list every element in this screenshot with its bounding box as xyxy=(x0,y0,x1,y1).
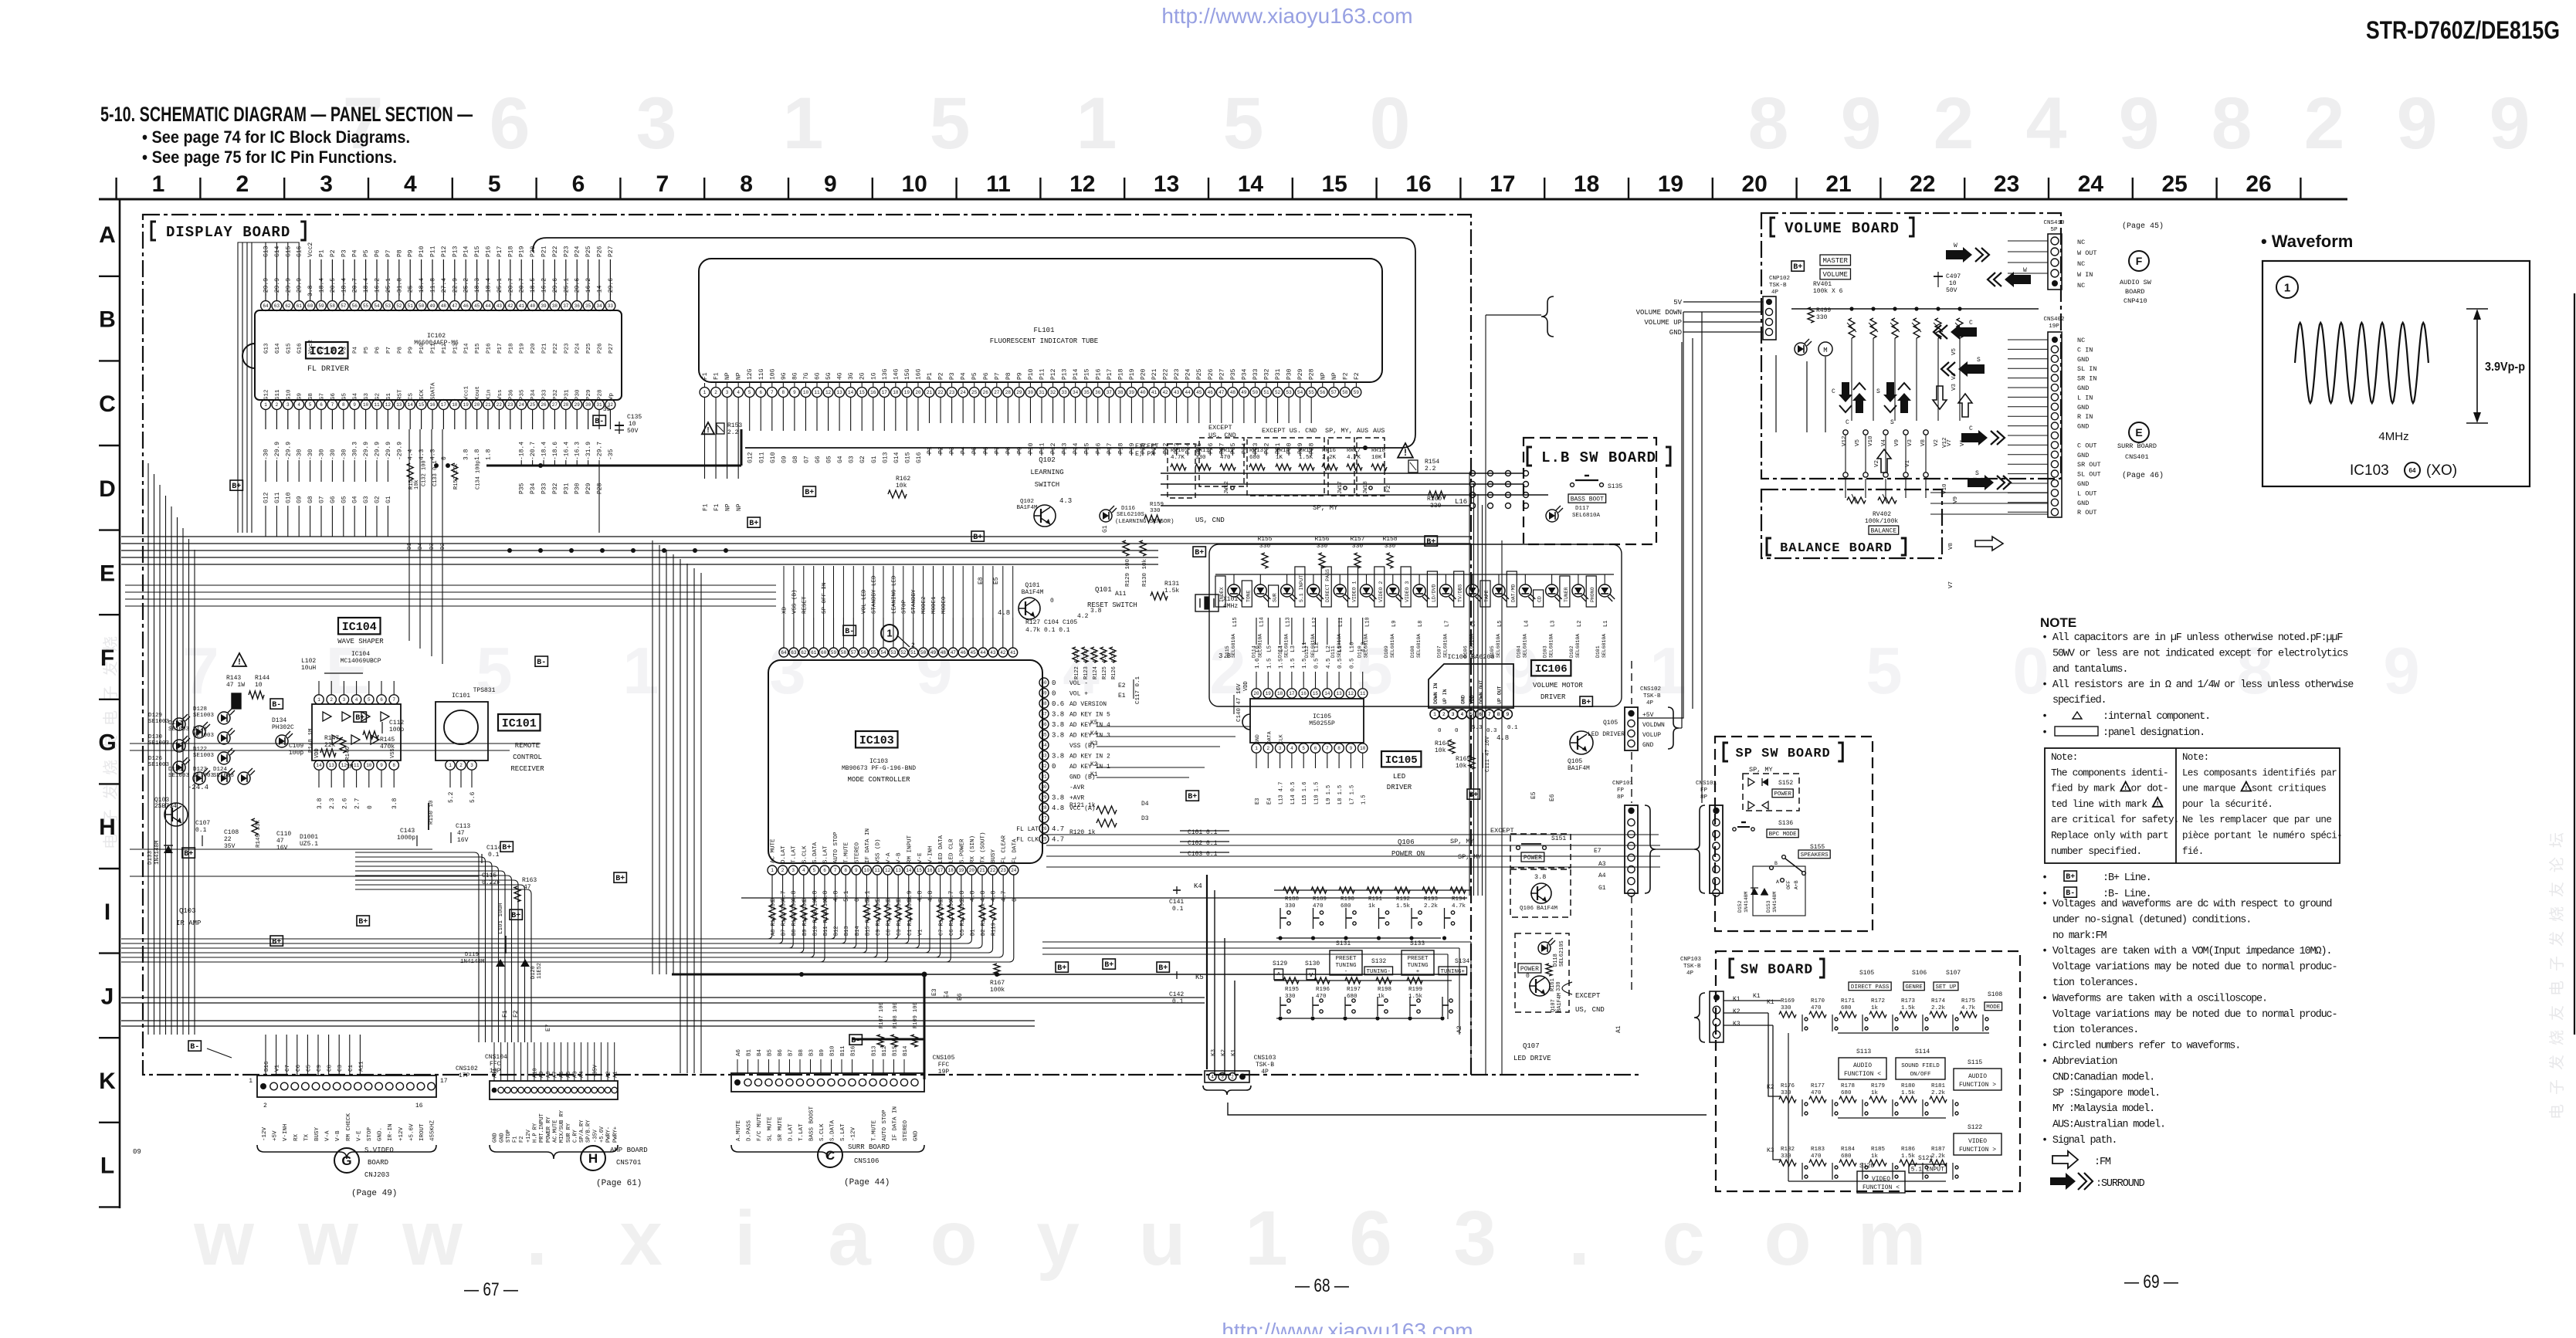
svg-text:16: 16 xyxy=(415,1103,423,1109)
svg-text:P1: P1 xyxy=(927,446,934,454)
svg-text:S: S xyxy=(1890,419,1894,426)
svg-text:P33: P33 xyxy=(1252,368,1259,380)
svg-text:P3: P3 xyxy=(341,346,347,354)
svg-text:F2: F2 xyxy=(1354,372,1361,380)
svg-text:D.LAT: D.LAT xyxy=(788,1123,795,1141)
svg-text:• Abbreviation: • Abbreviation xyxy=(2042,1056,2117,1068)
svg-text:24: 24 xyxy=(961,390,967,395)
svg-text:40: 40 xyxy=(1041,680,1047,686)
transistor Q106 xyxy=(1531,883,1551,903)
svg-text:R192: R192 xyxy=(1396,896,1410,903)
svg-text:-18.4: -18.4 xyxy=(486,278,493,296)
svg-text:VIDEO 1: VIDEO 1 xyxy=(1352,581,1357,602)
svg-text:SP SW BOARD: SP SW BOARD xyxy=(1736,747,1831,761)
svg-text:52: 52 xyxy=(900,650,907,655)
svg-text:R130 10k: R130 10k xyxy=(1142,558,1148,587)
svg-text:47: 47 xyxy=(452,303,458,309)
svg-text:12G: 12G xyxy=(747,368,754,380)
svg-text:SEL6810A: SEL6810A xyxy=(1390,634,1395,658)
svg-text:16: 16 xyxy=(927,868,933,873)
svg-text:61: 61 xyxy=(811,650,817,655)
svg-text:S.LAT: S.LAT xyxy=(840,1123,846,1141)
svg-text:D4: D4 xyxy=(1141,801,1149,808)
svg-text:2.2: 2.2 xyxy=(727,429,739,436)
svg-text:4.5: 4.5 xyxy=(1326,658,1332,669)
svg-text:F2: F2 xyxy=(513,1010,520,1018)
svg-text:B9 R104 100: B9 R104 100 xyxy=(802,900,808,936)
svg-text:10: 10 xyxy=(1949,280,1957,287)
svg-text:B10 R105 100: B10 R105 100 xyxy=(812,897,819,936)
svg-text:-18.4: -18.4 xyxy=(341,278,347,296)
svg-text:5V: 5V xyxy=(1673,299,1682,307)
svg-text:D109: D109 xyxy=(1384,645,1389,658)
svg-text:IC103: IC103 xyxy=(869,758,888,765)
svg-text:43: 43 xyxy=(497,303,503,309)
svg-text:4.2: 4.2 xyxy=(1077,613,1089,620)
wire swboard k lines xyxy=(1724,1000,1781,1001)
svg-text:DAT/MD: DAT/MD xyxy=(1510,584,1516,602)
svg-text:G2: G2 xyxy=(375,496,381,503)
svg-text:A3: A3 xyxy=(572,1072,578,1078)
B+ box w8 xyxy=(747,517,760,527)
svg-text:55: 55 xyxy=(363,303,369,309)
svg-text:CNS106: CNS106 xyxy=(854,1157,879,1165)
svg-text:VSS (D): VSS (D) xyxy=(876,838,882,863)
svg-text:GND: GND xyxy=(2077,480,2089,488)
svg-text:RX: RX xyxy=(293,1133,300,1141)
svg-text:1k: 1k xyxy=(1871,1005,1879,1011)
svg-text:5.1: 5.1 xyxy=(843,890,850,902)
svg-text:B+: B+ xyxy=(1195,549,1204,557)
svg-text:WAVE SHAPER: WAVE SHAPER xyxy=(337,638,384,645)
svg-text:1: 1 xyxy=(783,83,824,164)
svg-text:100k X 6: 100k X 6 xyxy=(1813,288,1843,295)
svg-text:D108: D108 xyxy=(1410,645,1415,658)
svg-text:11G: 11G xyxy=(758,368,765,380)
svg-text:P17: P17 xyxy=(1107,368,1113,380)
svg-text:G6: G6 xyxy=(815,456,822,463)
svg-text:64: 64 xyxy=(781,650,787,655)
svg-text:7: 7 xyxy=(331,402,334,408)
svg-text:T.MUTE: T.MUTE xyxy=(872,1120,878,1141)
svg-text:470: 470 xyxy=(1220,455,1231,461)
svg-text:D104: D104 xyxy=(1516,645,1521,658)
svg-text:15G: 15G xyxy=(904,368,911,380)
svg-text:CNS101: CNS101 xyxy=(1696,781,1717,787)
svg-text:12: 12 xyxy=(1069,171,1095,197)
waveform sine xyxy=(2295,323,2429,403)
svg-text:• See page 75 for IC Pin Funct: • See page 75 for IC Pin Functions. xyxy=(142,147,397,167)
svg-text:8P: 8P xyxy=(1617,794,1625,801)
svg-text:63: 63 xyxy=(791,650,797,655)
svg-text:1.5: 1.5 xyxy=(1266,658,1273,669)
svg-text:GND: GND xyxy=(2077,384,2089,392)
svg-text:2: 2 xyxy=(781,868,785,873)
svg-text:SW BOARD: SW BOARD xyxy=(1740,962,1813,977)
svg-text:STR-D760Z/DE815G: STR-D760Z/DE815G xyxy=(2366,16,2560,44)
svg-text:18: 18 xyxy=(452,402,458,408)
svg-text:SEL6810A: SEL6810A xyxy=(1602,634,1607,658)
svg-text:B-: B- xyxy=(851,1037,860,1045)
svg-text:+AVR: +AVR xyxy=(1069,795,1084,802)
svg-text:23: 23 xyxy=(1001,868,1007,873)
svg-text:SEL6810A: SEL6810A xyxy=(1496,634,1501,658)
svg-text:1: 1 xyxy=(622,635,659,708)
svg-text:16G: 16G xyxy=(915,368,922,380)
svg-text:E: E xyxy=(2135,426,2142,439)
arrow L out hollow xyxy=(1975,537,2003,550)
IC101 label box xyxy=(498,714,541,730)
B+ box w2 xyxy=(354,712,366,722)
svg-text:+5.6V: +5.6V xyxy=(408,1123,415,1141)
svg-text:-12V: -12V xyxy=(262,1126,268,1141)
IC102 label box xyxy=(306,342,348,358)
svg-text:R194: R194 xyxy=(1452,896,1466,903)
svg-text:19P: 19P xyxy=(938,1069,950,1075)
svg-text:G9: G9 xyxy=(781,456,788,463)
svg-text:RR15: RR15 xyxy=(1299,448,1313,454)
svg-text:L12: L12 xyxy=(1312,617,1318,627)
svg-text:B+: B+ xyxy=(502,844,511,852)
lb sw board label xyxy=(1527,447,1532,466)
transistor Q107 xyxy=(1530,976,1550,996)
svg-text:R IN: R IN xyxy=(2077,413,2093,421)
svg-text:MASTER: MASTER xyxy=(1823,257,1849,265)
svg-text:-27.4: -27.4 xyxy=(441,278,448,296)
svg-text:1.8: 1.8 xyxy=(474,449,481,460)
svg-text:G1: G1 xyxy=(386,392,392,400)
svg-text:TUNER: TUNER xyxy=(1564,587,1569,602)
svg-text:4: 4 xyxy=(355,697,358,703)
svg-text:V-A: V-A xyxy=(886,852,892,863)
svg-text:o: o xyxy=(930,1195,977,1282)
svg-text:Voltage variations may be note: Voltage variations may be noted due to n… xyxy=(2052,962,2337,974)
svg-text:• All capacitors are in µF unl: • All capacitors are in µF unless otherw… xyxy=(2042,632,2343,644)
ruler top xyxy=(99,198,2347,201)
svg-text:• Signal path.: • Signal path. xyxy=(2042,1135,2117,1147)
wire IC103 bottom to left bus xyxy=(771,875,773,905)
B+ box 1 xyxy=(1056,962,1068,972)
svg-text:TPS831: TPS831 xyxy=(473,687,496,694)
svg-text:S113: S113 xyxy=(1856,1048,1871,1055)
svg-text:CNS102: CNS102 xyxy=(456,1065,478,1072)
svg-text:-29.9: -29.9 xyxy=(274,278,281,296)
svg-text:P17: P17 xyxy=(497,343,503,354)
svg-text:S120: S120 xyxy=(1859,1163,1874,1170)
svg-text:S: S xyxy=(1975,470,1979,477)
svg-text:1: 1 xyxy=(2284,281,2290,294)
wire cns402 links xyxy=(2008,339,2048,340)
svg-text:US, CND: US, CND xyxy=(1195,517,1225,524)
svg-text:2: 2 xyxy=(714,390,717,395)
svg-text:10: 10 xyxy=(803,390,809,395)
svg-text:55: 55 xyxy=(1309,390,1315,395)
svg-text:-25.1: -25.1 xyxy=(497,278,503,296)
svg-text:IC102: IC102 xyxy=(310,345,344,358)
svg-text:1N4148M: 1N4148M xyxy=(1772,892,1778,913)
wire thick bus xyxy=(672,974,924,976)
svg-text:BUSY: BUSY xyxy=(314,1126,320,1141)
POWER box q107 xyxy=(1518,964,1541,973)
svg-text:1.5k: 1.5k xyxy=(1901,1005,1916,1011)
svg-text:BOARD: BOARD xyxy=(2125,288,2145,296)
svg-text:Vcc2: Vcc2 xyxy=(308,340,314,354)
svg-text:F1: F1 xyxy=(703,503,710,511)
svg-text:SP, MY: SP, MY xyxy=(1450,838,1474,845)
svg-text:54: 54 xyxy=(880,650,886,655)
svg-text:F: F xyxy=(2136,255,2143,267)
svg-text:D124: D124 xyxy=(213,767,228,773)
svg-text:20: 20 xyxy=(969,868,975,873)
svg-text:680: 680 xyxy=(1249,455,1260,461)
resistor row R195-R199 xyxy=(1274,980,1452,981)
svg-text:AUTO STOP: AUTO STOP xyxy=(833,832,839,863)
svg-text:P6: P6 xyxy=(375,346,381,354)
wire thick ic102 bus xyxy=(486,465,741,467)
svg-text:PRESET: PRESET xyxy=(1407,956,1429,962)
svg-text:9: 9 xyxy=(1350,746,1353,751)
svg-text:A+B: A+B xyxy=(1794,880,1799,889)
svg-text:E6: E6 xyxy=(957,993,964,1001)
svg-text:6: 6 xyxy=(1349,1195,1392,1282)
junction dots main xyxy=(507,548,512,553)
IC103 body xyxy=(768,660,1042,863)
svg-text:680: 680 xyxy=(1347,994,1357,1000)
transistor Q101 xyxy=(1019,598,1040,619)
svg-text:100k: 100k xyxy=(990,987,1005,994)
wire bundle cns701 xyxy=(355,852,479,1042)
LED board wire loop xyxy=(1209,544,1622,706)
wire bus left G rows xyxy=(130,743,541,744)
svg-text:4.7k 0.1 0.1: 4.7k 0.1 0.1 xyxy=(1025,627,1070,634)
svg-text:D.PASS: D.PASS xyxy=(747,1120,753,1141)
FL101 pins 1-59 xyxy=(700,388,710,398)
svg-text:SUR RY: SUR RY xyxy=(566,1123,572,1143)
B+ box l1 xyxy=(500,842,513,852)
CNS101 connector xyxy=(1710,805,1723,893)
svg-text:P5: P5 xyxy=(363,249,370,257)
wire fan FL101 left pins xyxy=(704,397,706,479)
svg-text:GND: GND xyxy=(493,1133,499,1143)
svg-text:4.8: 4.8 xyxy=(980,890,987,902)
svg-text:1k: 1k xyxy=(1378,994,1385,1000)
svg-text:P21: P21 xyxy=(541,246,548,257)
svg-text:• See page 74 for IC Block Dia: • See page 74 for IC Block Diagrams. xyxy=(142,127,410,147)
svg-text:L8 1.5: L8 1.5 xyxy=(1337,785,1344,804)
svg-text:!: ! xyxy=(1404,447,1407,458)
B+ box l2 xyxy=(510,910,522,920)
svg-text:26: 26 xyxy=(2246,171,2271,197)
svg-text:16V: 16V xyxy=(276,845,288,852)
svg-text:14: 14 xyxy=(1238,171,1264,197)
svg-text:47 1W: 47 1W xyxy=(226,682,245,689)
svg-text:L14 0.5: L14 0.5 xyxy=(1290,782,1296,804)
svg-text:Vcc1: Vcc1 xyxy=(464,385,470,400)
svg-text:GND: GND xyxy=(1255,734,1260,744)
svg-text:D3: D3 xyxy=(1141,815,1149,822)
svg-text:1: 1 xyxy=(886,628,892,639)
svg-text:R126 4.7k: R126 4.7k xyxy=(1111,650,1117,679)
svg-text:电 子 发 烧 友 电 子 发 烧 友 论 坛: 电 子 发 烧 友 电 子 发 烧 友 论 坛 xyxy=(2548,832,2568,1120)
svg-text:B6: B6 xyxy=(778,1048,784,1056)
svg-text:S.DATA: S.DATA xyxy=(830,1120,836,1141)
svg-text:MB90673 PF-G-196-BND: MB90673 PF-G-196-BND xyxy=(842,765,916,772)
svg-text:64: 64 xyxy=(2409,467,2416,474)
svg-text:44: 44 xyxy=(980,650,986,655)
svg-text:STEREO: STEREO xyxy=(903,1120,909,1141)
svg-text:G3: G3 xyxy=(363,496,370,503)
wire brace out xyxy=(1228,1103,1707,1115)
svg-text:P35: P35 xyxy=(1230,368,1237,380)
svg-text:SCK: SCK xyxy=(419,389,425,400)
svg-text:C107: C107 xyxy=(195,820,210,827)
svg-text:10k: 10k xyxy=(1435,747,1446,754)
svg-text:22: 22 xyxy=(990,868,996,873)
svg-text:1.5k: 1.5k xyxy=(1408,994,1423,1000)
svg-text:0.1: 0.1 xyxy=(488,852,500,859)
svg-text:VOL LED: VOL LED xyxy=(862,589,868,614)
svg-text:AUDIO SW: AUDIO SW xyxy=(2120,279,2152,286)
svg-text:-29.9: -29.9 xyxy=(285,442,292,460)
svg-text:!: ! xyxy=(2246,784,2248,791)
svg-text:55: 55 xyxy=(870,650,876,655)
svg-text:18: 18 xyxy=(1574,171,1599,197)
svg-text:28: 28 xyxy=(563,402,569,408)
svg-text:P15: P15 xyxy=(474,246,481,257)
svg-text:W: W xyxy=(1954,242,1957,249)
svg-text:4.7: 4.7 xyxy=(1052,825,1064,833)
wire lb-volume link xyxy=(1692,338,1693,709)
svg-text:P28: P28 xyxy=(598,389,604,400)
svg-text:+12V: +12V xyxy=(526,1129,532,1143)
svg-text:specified.: specified. xyxy=(2052,695,2107,706)
SPEAKERS box xyxy=(1798,850,1830,859)
svg-text:F/C MUTE: F/C MUTE xyxy=(757,1113,763,1141)
svg-text:TX: TX xyxy=(303,1133,310,1141)
svg-text:B-: B- xyxy=(537,659,546,667)
svg-text:P21: P21 xyxy=(542,343,548,354)
svg-text:FL CLK: FL CLK xyxy=(1016,837,1039,844)
svg-text:TAPE: TAPE xyxy=(1484,590,1490,602)
svg-text:42: 42 xyxy=(1162,390,1168,395)
svg-text:15: 15 xyxy=(859,390,866,395)
svg-text:11: 11 xyxy=(354,763,360,768)
svg-text:13: 13 xyxy=(896,868,902,873)
svg-text:C112: C112 xyxy=(389,720,404,727)
svg-text:P16: P16 xyxy=(1095,368,1102,380)
arrow W in xyxy=(2005,272,2031,287)
svg-text:AD KEY IN 2: AD KEY IN 2 xyxy=(1069,754,1110,760)
svg-text:B9: B9 xyxy=(819,1049,825,1056)
svg-text:-18.4: -18.4 xyxy=(541,442,548,460)
svg-text:4: 4 xyxy=(404,171,417,197)
svg-text:GND: GND xyxy=(499,1133,505,1143)
svg-text:S.CLK: S.CLK xyxy=(802,845,808,863)
svg-text:SOUND FIELD: SOUND FIELD xyxy=(1901,1063,1940,1069)
svg-text:27: 27 xyxy=(1041,816,1047,821)
svg-text:E3: E3 xyxy=(1255,798,1261,804)
svg-text:P5: P5 xyxy=(971,372,978,380)
svg-text:AC.MUTE: AC.MUTE xyxy=(552,1120,558,1143)
svg-text:24: 24 xyxy=(2078,171,2104,197)
svg-text:FUNCTION >: FUNCTION > xyxy=(1959,1082,1996,1089)
svg-text:E8: E8 xyxy=(978,577,985,584)
svg-text:C7 R115 100: C7 R115 100 xyxy=(939,900,945,936)
svg-text:7: 7 xyxy=(392,697,395,703)
svg-text:1M: 1M xyxy=(346,764,354,771)
svg-text:C3: C3 xyxy=(337,1064,344,1072)
svg-text:-29.9: -29.9 xyxy=(375,442,381,460)
svg-text:53: 53 xyxy=(385,303,391,309)
svg-text:D115: D115 xyxy=(1225,645,1230,658)
svg-text:F1: F1 xyxy=(713,372,720,380)
svg-text:-30: -30 xyxy=(330,449,337,460)
svg-text:C103 0.1: C103 0.1 xyxy=(1188,851,1218,858)
svg-text:C113: C113 xyxy=(456,823,470,830)
svg-text:P4: P4 xyxy=(353,346,359,354)
svg-text:18: 18 xyxy=(948,868,954,873)
svg-text:B13: B13 xyxy=(872,1045,878,1056)
svg-text:AD KEY IN 5: AD KEY IN 5 xyxy=(1069,712,1110,719)
svg-text:V4: V4 xyxy=(1881,439,1887,446)
svg-text:G5: G5 xyxy=(341,392,347,400)
svg-text:CNS401: CNS401 xyxy=(2125,453,2149,461)
svg-text:and tantalums.: and tantalums. xyxy=(2052,664,2127,676)
svg-text:11: 11 xyxy=(374,402,380,408)
svg-text:R185: R185 xyxy=(1871,1147,1886,1153)
svg-text:R184: R184 xyxy=(1841,1147,1856,1153)
BALANCE box xyxy=(1869,526,1899,534)
svg-text:14G: 14G xyxy=(893,368,900,380)
svg-text:-35: -35 xyxy=(599,406,611,413)
svg-text:• Waveforms are taken with a o: • Waveforms are taken with a oscilloscop… xyxy=(2042,993,2267,1004)
svg-text:V9: V9 xyxy=(1894,439,1900,446)
BPC MODE box xyxy=(1767,829,1798,838)
svg-text:33: 33 xyxy=(608,303,614,309)
svg-text:10: 10 xyxy=(864,868,870,873)
svg-text:3.9Vp-p: 3.9Vp-p xyxy=(2485,361,2525,374)
svg-text:3: 3 xyxy=(791,868,795,873)
svg-text:38: 38 xyxy=(552,303,558,309)
svg-text:P35: P35 xyxy=(520,389,526,400)
svg-text:P7: P7 xyxy=(994,446,1001,454)
svg-text:R129 100: R129 100 xyxy=(1125,558,1131,587)
svg-text:43: 43 xyxy=(1174,390,1180,395)
svg-text:58: 58 xyxy=(1342,390,1348,395)
wire cnp102 feed xyxy=(1683,301,1763,303)
svg-text:w: w xyxy=(297,1195,358,1282)
svg-text:0.3: 0.3 xyxy=(1486,728,1497,734)
svg-text:B3: B3 xyxy=(809,1048,815,1056)
svg-text:P8: P8 xyxy=(396,249,403,257)
svg-text:V-INH: V-INH xyxy=(283,1123,289,1141)
svg-text:(Page 45): (Page 45) xyxy=(2122,222,2164,231)
svg-text:C3 R113 100: C3 R113 100 xyxy=(897,900,903,936)
wire ic103 top feed xyxy=(783,566,785,618)
svg-text:G11: G11 xyxy=(275,389,281,400)
svg-text:RR17: RR17 xyxy=(1347,448,1361,454)
svg-text:54: 54 xyxy=(1297,390,1303,395)
svg-text:4.3: 4.3 xyxy=(1059,497,1072,505)
svg-text:E3: E3 xyxy=(931,988,938,996)
svg-text:P15: P15 xyxy=(1084,442,1091,454)
svg-text:L5: L5 xyxy=(1497,621,1503,627)
svg-text:V1: V1 xyxy=(275,1064,281,1072)
svg-text:36: 36 xyxy=(1095,390,1101,395)
svg-text:10k: 10k xyxy=(896,483,907,489)
svg-text:46: 46 xyxy=(961,650,967,655)
arrow S in xyxy=(1958,361,1985,377)
